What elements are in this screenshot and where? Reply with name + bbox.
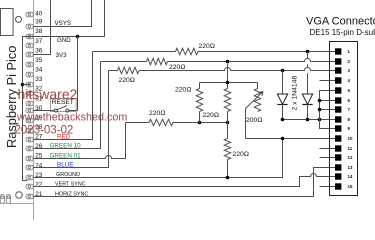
wire VSYS pin39 — [34, 0, 92, 27]
svg-text:GREEN 10: GREEN 10 — [50, 143, 82, 150]
wire GREEN 10 pin26 — [34, 62, 101, 149]
svg-text:15: 15 — [348, 184, 353, 189]
junction bridge — [226, 81, 230, 85]
resistor R5 220 ohm vertical left — [196, 89, 202, 112]
wire GREEN 01 pin25 (hop over blue riser) — [34, 123, 126, 159]
wire RED pin27 — [34, 52, 93, 140]
junction green node riser — [226, 60, 230, 64]
wire node2 down to ground row — [227, 123, 229, 139]
wire green node riser from line2 down — [227, 62, 229, 89]
svg-text:38: 38 — [35, 28, 43, 35]
wire GROUND pin23 — [34, 139, 283, 178]
svg-text:33: 33 — [35, 76, 43, 83]
svg-text:24: 24 — [35, 162, 43, 169]
wire pin6 stub — [320, 100, 336, 102]
junction GND rail — [76, 35, 80, 39]
Pico board bottom edge — [0, 202, 34, 204]
svg-text:13: 13 — [348, 165, 353, 170]
diode D1 1N4148 left — [282, 71, 284, 95]
svg-text:26: 26 — [35, 143, 43, 150]
junction ground row / R7 — [226, 176, 230, 180]
USB connector — [1, 9, 14, 36]
wire left ground rail pin38-pin33-pin23 — [23, 37, 34, 181]
svg-text:34: 34 — [35, 67, 43, 74]
wire red video line to VGA pin1 — [93, 51, 176, 53]
wire left vert resistor top stub — [199, 83, 201, 89]
mounting hole top — [16, 16, 22, 22]
wire pin7 stub — [320, 109, 336, 111]
Pico pin numbers 40..21 — [35, 10, 43, 198]
wire green01 lower line — [126, 122, 150, 124]
wire pin15 NC stub — [320, 186, 336, 188]
junction red/diode riser — [306, 50, 310, 54]
svg-text:DE15 15-pin D-sub: DE15 15-pin D-sub — [310, 28, 375, 37]
svg-text:39: 39 — [35, 19, 43, 26]
wire ground line to VGA pin10 — [246, 138, 336, 140]
svg-text:3V3: 3V3 — [56, 52, 68, 59]
svg-text:11: 11 — [348, 146, 353, 151]
debug pads bottom edge — [0, 195, 10, 204]
VGA pin numbers 1-15 — [348, 49, 353, 189]
wire BLUE pin24 — [34, 71, 109, 168]
junction node1 — [198, 121, 202, 125]
svg-text:hitsware2: hitsware2 — [18, 86, 78, 102]
svg-text:10: 10 — [348, 136, 353, 141]
wire pin11 NC stub — [320, 148, 336, 150]
svg-text:37: 37 — [35, 38, 43, 45]
wire GND pin38 — [34, 0, 105, 37]
svg-text:VERT SYNC: VERT SYNC — [55, 182, 86, 188]
junction pin10 line / ground chain — [281, 137, 285, 141]
svg-text:2 x 1N4148: 2 x 1N4148 — [292, 76, 299, 111]
resistor R6 220 ohm vertical right — [224, 89, 230, 112]
svg-text:220Ω: 220Ω — [203, 112, 219, 119]
wire green line continues, hop over diode riser — [168, 59, 336, 62]
Raspberry Pi Pico board edge — [33, 0, 35, 220]
svg-text:2023-03-02: 2023-03-02 — [15, 125, 74, 137]
wire VERT SYNC pin22 to VGA pin14 (hop over hsync riser) — [34, 174, 336, 187]
wire pot wiper down — [245, 109, 247, 139]
bridge wire between vertical resistors and pot — [200, 82, 258, 84]
wire pot top from bridge — [257, 83, 259, 89]
wire ground bus pins 5-9 — [320, 91, 336, 129]
svg-text:14: 14 — [348, 174, 353, 179]
junction node2 — [226, 121, 230, 125]
svg-text:12: 12 — [348, 155, 353, 160]
junction blue line / left diode — [281, 69, 285, 73]
wire green video line to VGA pin2 — [101, 61, 147, 63]
svg-text:220Ω: 220Ω — [199, 43, 215, 50]
svg-text:36: 36 — [35, 47, 43, 54]
wire rail to pin33 — [23, 84, 31, 86]
resistor R3 220 ohm blue — [118, 67, 140, 73]
svg-text:40: 40 — [35, 10, 43, 17]
VGA connector box — [330, 42, 358, 196]
potentiometer VR1 200 ohm — [254, 89, 260, 112]
svg-text:www.thebackshed.com: www.thebackshed.com — [16, 111, 127, 123]
pot wiper arrow — [246, 92, 264, 109]
mounting hole bottom — [16, 192, 23, 199]
svg-text:220Ω: 220Ω — [233, 151, 249, 158]
resistor R2 220 ohm green10 — [147, 58, 168, 64]
svg-text:220Ω: 220Ω — [119, 77, 135, 84]
wire diode clamp line to VGA pin8 — [283, 119, 336, 121]
svg-text:BLUE: BLUE — [57, 162, 73, 169]
svg-text:220Ω: 220Ω — [149, 110, 165, 117]
resistor R1 220 ohm red — [176, 48, 199, 54]
svg-text:HORIZ SYNC: HORIZ SYNC — [55, 192, 88, 198]
wire 3V3 pin36 — [34, 0, 51, 55]
svg-text:22: 22 — [35, 181, 43, 188]
svg-text:GROUND: GROUND — [56, 172, 80, 178]
Pico pads pins 40..21 — [26, 12, 33, 199]
wire pin12 NC stub — [320, 157, 336, 159]
svg-text:VSYS: VSYS — [55, 20, 72, 27]
junction rail pin33 — [21, 83, 25, 87]
VGA pin squares 1-15 — [335, 48, 341, 189]
wire GND rail down to reset switch — [69, 37, 78, 111]
svg-text:VGA Connector: VGA Connector — [306, 16, 375, 28]
wire pin4 NC stub — [320, 80, 336, 82]
resistor R7 220 ohm to ground — [224, 139, 230, 160]
svg-text:35: 35 — [35, 57, 43, 64]
svg-text:220Ω: 220Ω — [175, 87, 191, 94]
diode D2 1N4148 right — [307, 52, 309, 95]
switch SW1 reset pushbutton — [51, 99, 77, 112]
svg-text:GND: GND — [57, 37, 71, 44]
wire pin30 to switch — [34, 110, 55, 112]
svg-text:220Ω: 220Ω — [169, 64, 185, 71]
resistor R4 220 ohm green01 — [149, 119, 173, 125]
wire HORIZ SYNC pin21 to VGA pin13 — [34, 168, 336, 197]
svg-text:GREEN 01: GREEN 01 — [50, 152, 82, 159]
svg-text:200Ω: 200Ω — [246, 117, 262, 124]
wire blue video line to VGA pin3 (hops over risers) — [109, 70, 118, 72]
